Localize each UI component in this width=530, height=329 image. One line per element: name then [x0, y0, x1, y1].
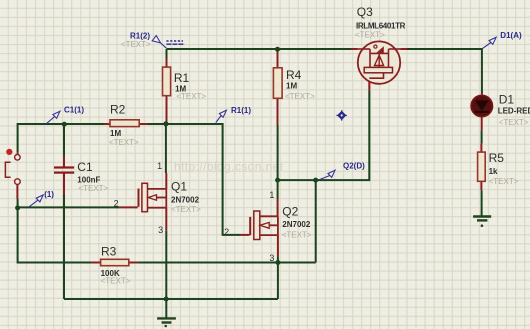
svg-text:Q3: Q3	[357, 5, 373, 19]
svg-text:2: 2	[224, 227, 229, 237]
svg-text:R4: R4	[286, 68, 302, 82]
svg-text:R1(2): R1(2)	[130, 31, 150, 40]
svg-text:<TEXT>: <TEXT>	[101, 277, 131, 286]
svg-text:<TEXT>: <TEXT>	[109, 138, 139, 147]
svg-text:1M: 1M	[110, 129, 121, 138]
svg-text:Q1: Q1	[171, 179, 187, 193]
svg-text:<TEXT>: <TEXT>	[78, 184, 108, 193]
svg-text:D1: D1	[499, 93, 515, 107]
svg-text:R3: R3	[101, 245, 117, 259]
svg-text:(1): (1)	[44, 190, 54, 199]
svg-text:1: 1	[269, 190, 274, 200]
svg-text:C1: C1	[77, 160, 93, 174]
svg-text:C1(1): C1(1)	[64, 106, 84, 115]
svg-text:<TEXT>: <TEXT>	[355, 30, 385, 39]
svg-text:http://blog.csdn.net: http://blog.csdn.net	[174, 160, 284, 174]
svg-text:1k: 1k	[489, 167, 498, 176]
svg-text:3: 3	[158, 225, 163, 235]
svg-text:IRLML6401TR: IRLML6401TR	[356, 21, 406, 30]
svg-text:R1(1): R1(1)	[231, 106, 251, 115]
svg-text:<TEXT>: <TEXT>	[285, 92, 315, 101]
svg-text:<TEXT>: <TEXT>	[499, 118, 529, 127]
svg-text:Q2(D): Q2(D)	[343, 162, 365, 171]
svg-text:D1(A): D1(A)	[500, 31, 522, 40]
svg-text:<TEXT>: <TEXT>	[489, 177, 519, 186]
svg-text:R1: R1	[174, 71, 190, 85]
svg-text:2N7002: 2N7002	[171, 196, 200, 205]
svg-text:<TEXT>: <TEXT>	[171, 205, 201, 214]
svg-text:R5: R5	[489, 151, 505, 165]
svg-text:2: 2	[114, 199, 119, 209]
svg-text:1M: 1M	[286, 81, 297, 90]
svg-text:<TEXT>: <TEXT>	[282, 231, 312, 240]
svg-text:3: 3	[269, 253, 274, 263]
svg-text:LED-RED: LED-RED	[498, 106, 530, 115]
svg-text:2N7002: 2N7002	[282, 220, 311, 229]
svg-text:<TEXT>: <TEXT>	[176, 92, 206, 101]
svg-text:R2: R2	[110, 103, 126, 117]
svg-text:<TEXT>: <TEXT>	[121, 40, 151, 49]
svg-text:1: 1	[157, 161, 162, 171]
svg-text:Q2: Q2	[282, 205, 298, 219]
